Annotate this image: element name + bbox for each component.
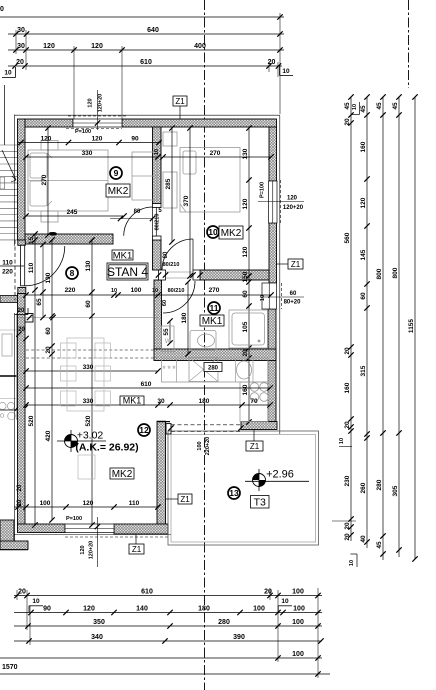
svg-text:140: 140 <box>136 606 148 613</box>
svg-text:+3.02: +3.02 <box>77 430 104 442</box>
svg-text:15: 15 <box>28 237 35 245</box>
svg-text:100: 100 <box>293 606 305 613</box>
svg-text:110: 110 <box>2 260 13 267</box>
svg-text:160: 160 <box>360 141 367 152</box>
svg-text:120: 120 <box>242 198 249 209</box>
svg-text:MK1: MK1 <box>202 316 223 327</box>
svg-text:P=100: P=100 <box>260 182 266 198</box>
svg-text:270: 270 <box>41 174 48 185</box>
svg-text:MK2: MK2 <box>108 186 129 197</box>
svg-text:520: 520 <box>85 415 92 426</box>
svg-text:280: 280 <box>208 366 219 372</box>
svg-text:10: 10 <box>154 149 160 155</box>
svg-text:45: 45 <box>376 541 383 549</box>
svg-text:20: 20 <box>17 484 23 491</box>
svg-text:10: 10 <box>352 104 358 110</box>
svg-text:20: 20 <box>344 522 351 530</box>
svg-text:120: 120 <box>287 196 298 202</box>
svg-text:10: 10 <box>32 598 40 605</box>
svg-text:10: 10 <box>260 295 266 301</box>
svg-text:120: 120 <box>80 545 86 554</box>
svg-text:120: 120 <box>83 606 95 613</box>
svg-text:315: 315 <box>360 365 367 376</box>
svg-text:MK2: MK2 <box>112 469 133 480</box>
svg-text:*: * <box>162 364 166 374</box>
svg-text:100: 100 <box>292 589 304 596</box>
svg-text:20: 20 <box>344 118 351 126</box>
svg-text:120: 120 <box>360 197 367 208</box>
svg-text:45: 45 <box>344 102 351 110</box>
svg-text:130: 130 <box>85 260 92 271</box>
svg-text:65: 65 <box>36 298 43 306</box>
svg-text:W: W <box>165 338 172 345</box>
svg-text:20: 20 <box>344 533 351 541</box>
svg-text:120: 120 <box>92 136 103 143</box>
svg-text:80: 80 <box>163 251 169 258</box>
svg-text:400: 400 <box>194 43 206 50</box>
svg-text:10: 10 <box>282 68 290 75</box>
svg-text:60: 60 <box>162 300 168 306</box>
svg-text:800: 800 <box>392 267 399 278</box>
svg-text:Z1: Z1 <box>175 97 185 106</box>
svg-text:130: 130 <box>242 148 249 159</box>
svg-text:120: 120 <box>83 500 94 507</box>
svg-text:370: 370 <box>183 195 190 206</box>
svg-text:120+20: 120+20 <box>98 94 104 113</box>
svg-text:P=100: P=100 <box>66 516 82 522</box>
svg-text:520: 520 <box>28 415 35 426</box>
svg-text:30: 30 <box>157 398 165 405</box>
svg-text:330: 330 <box>83 364 94 371</box>
svg-text:40: 40 <box>360 535 367 543</box>
svg-text:160: 160 <box>242 384 249 395</box>
svg-text:20: 20 <box>344 347 351 355</box>
svg-text:1570: 1570 <box>2 664 18 671</box>
svg-text:100: 100 <box>197 441 203 450</box>
svg-text:30: 30 <box>17 27 25 34</box>
svg-text:120: 120 <box>242 246 249 257</box>
svg-text:10: 10 <box>281 598 289 605</box>
svg-text:30: 30 <box>0 6 4 13</box>
svg-text:190: 190 <box>45 272 52 283</box>
svg-text:100: 100 <box>292 651 304 658</box>
svg-text:10: 10 <box>4 70 12 77</box>
svg-text:120: 120 <box>88 98 94 107</box>
svg-text:20: 20 <box>18 308 25 314</box>
svg-text:270: 270 <box>210 150 221 157</box>
svg-text:180: 180 <box>181 312 188 323</box>
svg-text:80+20: 80+20 <box>284 300 302 306</box>
svg-text:70: 70 <box>250 398 258 405</box>
svg-text:9: 9 <box>114 168 119 178</box>
svg-text:20: 20 <box>18 327 25 333</box>
svg-text:100: 100 <box>292 619 304 626</box>
svg-text:30: 30 <box>17 43 25 50</box>
svg-text:20: 20 <box>344 421 351 429</box>
svg-text:Z1: Z1 <box>250 442 260 451</box>
svg-text:45: 45 <box>360 105 367 113</box>
svg-text:100: 100 <box>131 287 142 294</box>
svg-text:245: 245 <box>67 209 78 216</box>
svg-text:80/210: 80/210 <box>163 262 180 268</box>
svg-text:P=100: P=100 <box>75 129 91 135</box>
svg-text:MK2: MK2 <box>221 228 242 239</box>
svg-text:90: 90 <box>131 136 139 143</box>
svg-text:45: 45 <box>392 102 399 110</box>
svg-text:150: 150 <box>242 271 249 282</box>
svg-text:*: * <box>167 364 171 374</box>
svg-text:45: 45 <box>376 102 383 110</box>
svg-text:120: 120 <box>43 43 55 50</box>
svg-text:285: 285 <box>165 178 172 189</box>
svg-text:120: 120 <box>41 136 52 143</box>
svg-text:STAN 4: STAN 4 <box>107 265 148 279</box>
svg-text:Z1: Z1 <box>132 545 142 554</box>
svg-text:10: 10 <box>111 288 117 294</box>
svg-text:220: 220 <box>65 287 76 294</box>
svg-text:270: 270 <box>209 287 220 294</box>
svg-text:330: 330 <box>83 398 94 405</box>
svg-text:11: 11 <box>210 303 219 313</box>
svg-text:350: 350 <box>93 619 105 626</box>
svg-text:80/210: 80/210 <box>168 288 185 294</box>
svg-text:330: 330 <box>82 150 93 157</box>
svg-text:340: 340 <box>91 634 103 641</box>
svg-text:230: 230 <box>344 475 351 486</box>
svg-text:100: 100 <box>40 500 51 507</box>
svg-text:20: 20 <box>264 589 272 596</box>
svg-text:10: 10 <box>339 438 345 444</box>
svg-text:60: 60 <box>85 300 92 308</box>
svg-text:260: 260 <box>360 482 367 493</box>
svg-text:80/210: 80/210 <box>155 214 161 231</box>
svg-text:60: 60 <box>242 290 249 298</box>
svg-text:60: 60 <box>360 292 367 300</box>
svg-text:560: 560 <box>344 232 351 243</box>
svg-text:120+20: 120+20 <box>89 541 95 560</box>
svg-text:180: 180 <box>198 606 210 613</box>
svg-text:20: 20 <box>18 589 26 596</box>
svg-text:610: 610 <box>141 381 152 388</box>
svg-text:12: 12 <box>139 425 149 435</box>
svg-text:390: 390 <box>233 634 245 641</box>
svg-text:13: 13 <box>229 488 239 498</box>
svg-text:1155: 1155 <box>408 319 415 333</box>
svg-text:*: * <box>172 364 176 374</box>
svg-text:10: 10 <box>208 227 218 237</box>
svg-text:MK1: MK1 <box>113 250 133 261</box>
svg-text:110: 110 <box>28 262 35 273</box>
svg-text:640: 640 <box>147 27 159 34</box>
svg-text:105: 105 <box>242 321 249 332</box>
svg-text:20: 20 <box>16 59 24 66</box>
svg-text:10: 10 <box>349 560 355 566</box>
svg-text:610: 610 <box>140 59 152 66</box>
svg-text:90: 90 <box>43 606 51 613</box>
svg-text:MK1: MK1 <box>123 396 142 406</box>
svg-text:Z1: Z1 <box>180 495 190 504</box>
svg-text:Z1: Z1 <box>291 260 301 269</box>
svg-text:280: 280 <box>376 479 383 490</box>
svg-text:120: 120 <box>91 43 103 50</box>
svg-text:20: 20 <box>242 349 249 357</box>
svg-text:610: 610 <box>141 589 153 596</box>
svg-text:10: 10 <box>152 288 158 294</box>
svg-text:T3: T3 <box>254 497 266 509</box>
svg-text:420: 420 <box>45 430 52 441</box>
svg-text:60: 60 <box>290 291 297 297</box>
svg-text:800: 800 <box>376 268 383 279</box>
svg-text:55: 55 <box>163 328 170 336</box>
svg-text:(A.K.= 26.92): (A.K.= 26.92) <box>75 442 138 454</box>
svg-text:220: 220 <box>2 269 13 276</box>
svg-text:100: 100 <box>253 606 265 613</box>
svg-text:60: 60 <box>45 327 52 335</box>
svg-text:180: 180 <box>199 398 210 405</box>
svg-text:160: 160 <box>344 382 351 393</box>
svg-text:80: 80 <box>134 209 141 215</box>
svg-text:+2.96: +2.96 <box>266 469 294 481</box>
svg-text:110: 110 <box>129 500 140 507</box>
svg-text:8: 8 <box>70 268 75 278</box>
svg-text:305: 305 <box>392 485 399 496</box>
svg-text:145: 145 <box>360 249 367 260</box>
svg-text:120+20: 120+20 <box>283 205 304 211</box>
svg-text:220+20: 220+20 <box>205 437 211 456</box>
svg-text:20: 20 <box>17 499 23 506</box>
svg-text:280: 280 <box>218 619 230 626</box>
